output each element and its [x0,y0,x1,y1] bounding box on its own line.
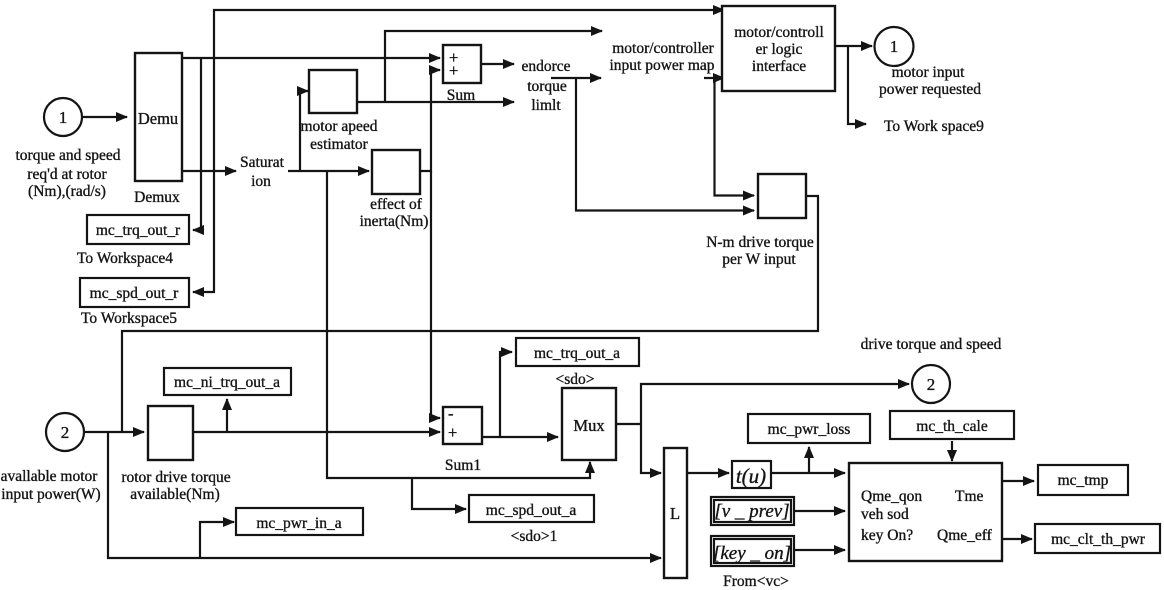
svg-text:To Workspace4: To Workspace4 [77,250,173,267]
svg-text:key On?: key On? [861,527,913,544]
svg-text:[v _ prev]: [v _ prev] [714,501,789,522]
svg-text:Demux: Demux [134,189,180,206]
svg-text:interface: interface [752,58,806,75]
svg-text:2: 2 [927,375,936,394]
svg-text:mc_ni_trq_out_a: mc_ni_trq_out_a [174,374,280,391]
svg-text:1: 1 [890,37,899,56]
svg-text:estimator: estimator [310,136,369,153]
svg-text:(Nm),(rad/s): (Nm),(rad/s) [28,183,106,200]
svg-text:input power(W): input power(W) [1,486,100,503]
svg-text:Demu: Demu [138,109,178,128]
svg-text:ion: ion [251,173,271,190]
svg-text:mc_trq_out_r: mc_trq_out_r [96,222,181,239]
svg-text:1: 1 [59,108,68,127]
svg-text:+: + [448,423,457,442]
svg-text:Sum1: Sum1 [445,457,481,474]
svg-text:Sum: Sum [447,87,475,104]
svg-text:<sdo>1: <sdo>1 [511,528,558,545]
svg-text:endorce: endorce [521,58,570,75]
svg-text:mc_clt_th_pwr: mc_clt_th_pwr [1051,531,1146,548]
svg-text:Qme_eff: Qme_eff [937,527,993,544]
svg-text:motor/controller: motor/controller [612,40,714,57]
svg-text:drive torque and speed: drive torque and speed [861,336,1002,353]
svg-text:t(u): t(u) [736,464,766,488]
svg-text:Saturat: Saturat [240,154,285,171]
svg-text:torque and speed: torque and speed [15,147,120,164]
svg-text:req'd at rotor: req'd at rotor [27,166,107,183]
svg-text:effect of: effect of [370,196,423,213]
svg-text:torque: torque [527,78,567,95]
svg-text:+: + [449,61,458,80]
svg-text:To Work space9: To Work space9 [884,118,984,135]
svg-text:[key _ on]: [key _ on] [713,543,791,564]
svg-text:motor input: motor input [892,64,965,81]
svg-text:L: L [670,504,680,523]
svg-text:<sdo>: <sdo> [555,371,594,388]
svg-text:motor/controll: motor/controll [734,24,824,41]
svg-text:mc_pwr_in_a: mc_pwr_in_a [256,515,341,532]
svg-text:Mux: Mux [573,416,605,435]
svg-text:avallable motor: avallable motor [1,468,99,485]
svg-text:Qme_qon: Qme_qon [861,488,922,505]
svg-text:N-m drive torque: N-m drive torque [706,234,814,251]
svg-text:motor apeed: motor apeed [300,118,377,135]
svg-text:mc_trq_out_a: mc_trq_out_a [534,345,620,362]
svg-text:mc_th_cale: mc_th_cale [916,418,988,435]
svg-text:veh sod: veh sod [861,506,909,523]
svg-text:input power map: input power map [609,57,714,74]
svg-text:To Workspace5: To Workspace5 [81,310,177,327]
svg-text:er logic: er logic [756,41,803,58]
svg-text:mc_spd_out_r: mc_spd_out_r [90,285,180,302]
svg-text:mc_tmp: mc_tmp [1058,472,1109,489]
svg-text:-: - [448,404,454,423]
svg-text:mc_pwr_loss: mc_pwr_loss [768,421,851,438]
svg-text:per W input: per W input [722,251,796,268]
svg-text:Tme: Tme [955,488,984,505]
svg-text:limlt: limlt [531,97,561,114]
svg-text:inerta(Nm): inerta(Nm) [360,213,429,230]
svg-text:rotor drive torque: rotor drive torque [121,469,230,486]
svg-text:available(Nm): available(Nm) [130,486,220,503]
svg-text:power requested: power requested [879,81,981,98]
svg-text:mc_spd_out_a: mc_spd_out_a [486,502,577,519]
svg-text:From<vc>: From<vc> [723,573,789,590]
svg-text:2: 2 [61,423,70,442]
